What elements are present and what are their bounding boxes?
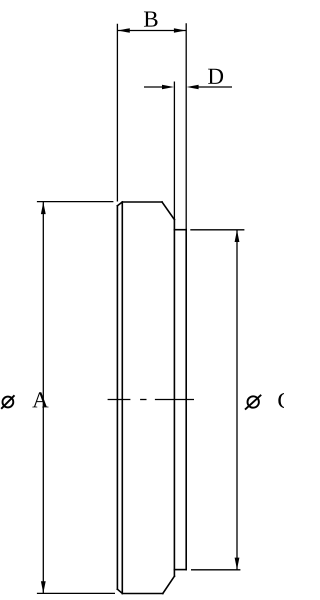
centerline: [108, 399, 194, 401]
label C: [278, 393, 291, 408]
bottom face: [122, 593, 163, 595]
flange right face: [185, 230, 187, 570]
part outline: [117, 202, 186, 594]
label B: [144, 12, 158, 27]
flange bottom face: [174, 569, 186, 571]
dimension D left arrow: [144, 85, 174, 90]
flange top face: [174, 229, 186, 231]
label D: [208, 69, 223, 84]
dimension line C: [235, 230, 240, 570]
dimension A extension line top: [37, 201, 114, 203]
label A: [32, 392, 48, 407]
dimension D extension line left: [173, 82, 175, 221]
dimension D right arrow: [187, 85, 232, 90]
bottom-left chamfer: [117, 589, 122, 593]
dimension C extension line bottom: [191, 569, 240, 571]
diameter symbol of C: [245, 395, 261, 410]
top face: [122, 201, 162, 203]
top cone edge: [162, 202, 174, 220]
dimension C extension line top: [190, 229, 244, 231]
top-left chamfer: [117, 202, 122, 206]
dimension B extension line right: [185, 23, 187, 230]
bottom cone edge: [163, 576, 175, 593]
cone-flange junction line: [173, 220, 175, 577]
dimension line B: [118, 28, 186, 33]
dimension A extension line bottom: [37, 592, 115, 594]
chamfer edge line: [121, 202, 123, 594]
part left edge: [116, 206, 118, 589]
dimension line A: [41, 202, 46, 593]
diameter symbol of A: [1, 395, 14, 409]
dimension B extension line left: [116, 24, 118, 202]
